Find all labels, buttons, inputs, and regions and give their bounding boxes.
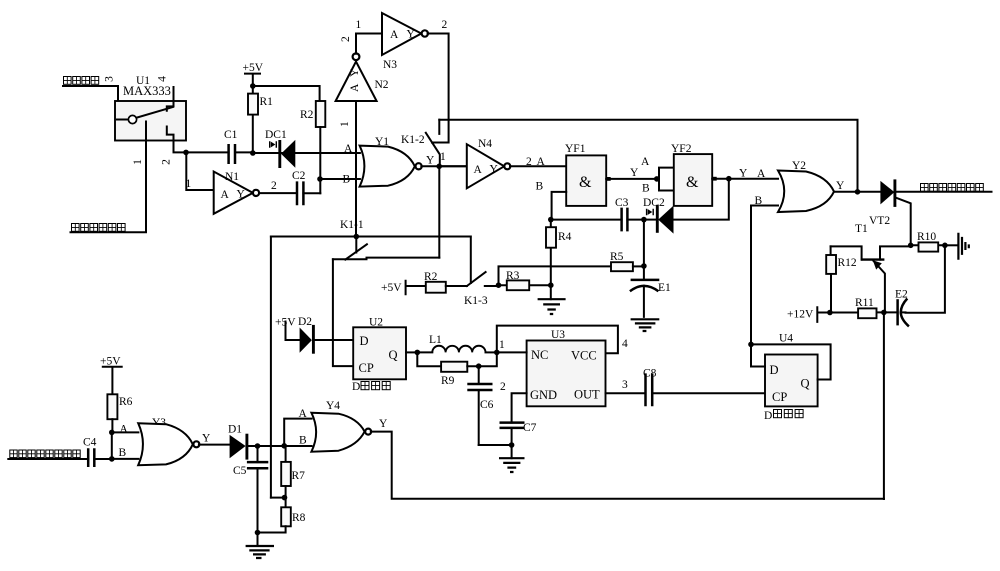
svg-text:+5V: +5V: [381, 282, 402, 294]
svg-text:C2: C2: [292, 170, 306, 182]
wire (Y2.B / U4.D): [751, 206, 765, 367]
diode DC2: [643, 197, 674, 234]
svg-text:D: D: [764, 410, 772, 422]
svg-text:1: 1: [499, 339, 505, 351]
wire (to Y4.B): [258, 435, 312, 447]
svg-text:A: A: [349, 83, 361, 92]
svg-text:&: &: [686, 174, 699, 191]
svg-text:B: B: [119, 447, 127, 459]
NOR gate Y3: [138, 417, 199, 465]
svg-text:R2: R2: [424, 271, 438, 283]
svg-text:1: 1: [339, 121, 351, 127]
svg-text:NC: NC: [531, 348, 548, 362]
svg-text:R2: R2: [300, 109, 314, 121]
node: [654, 176, 660, 182]
svg-text:A: A: [120, 424, 129, 436]
svg-text:R3: R3: [506, 270, 520, 282]
svg-text:E2: E2: [895, 289, 908, 301]
node: [509, 442, 515, 448]
svg-text:C6: C6: [480, 399, 494, 411]
wire (U3 pin1): [497, 351, 527, 353]
node: [496, 282, 502, 288]
svg-text:+12V: +12V: [787, 309, 814, 321]
node: [317, 176, 323, 182]
wire (Y4 out to bottom rail): [371, 418, 884, 499]
svg-text:+5V: +5V: [243, 62, 264, 74]
D flip-flop U4: [765, 333, 818, 407]
svg-text:A: A: [344, 143, 353, 155]
svg-text:4: 4: [622, 338, 628, 350]
svg-text:Y: Y: [426, 155, 435, 167]
wire: [111, 432, 113, 459]
pin 4: [157, 76, 174, 101]
wire (node A): [253, 143, 360, 155]
wire (N2 out to N3 in): [356, 19, 383, 54]
wire (top rail to Y2 out): [439, 120, 857, 192]
svg-text:R9: R9: [441, 375, 455, 387]
resistor R1: [248, 86, 273, 153]
wire (to N1 input): [186, 152, 215, 190]
node: [183, 150, 189, 156]
inverter N1: [214, 171, 259, 214]
wire (K1-1 right down to K1-3): [470, 237, 472, 284]
label (D flip-flop): [764, 410, 803, 423]
node: [476, 363, 482, 369]
svg-text:A: A: [757, 168, 766, 180]
svg-text:D: D: [770, 363, 779, 377]
svg-text:2: 2: [161, 159, 173, 165]
svg-text:N4: N4: [478, 138, 492, 150]
svg-text:C3: C3: [615, 197, 629, 209]
svg-text:A: A: [537, 156, 546, 168]
node: [881, 310, 887, 316]
wire (Y2 out): [834, 180, 858, 192]
svg-text:B: B: [536, 181, 544, 193]
svg-text:Y: Y: [379, 418, 388, 430]
transistor T1: [831, 198, 911, 313]
diode D1: [228, 424, 258, 460]
node: [255, 443, 261, 449]
svg-text:A: A: [299, 408, 308, 420]
capacitor E1: [630, 220, 671, 317]
pin 1 label: [132, 159, 144, 165]
svg-text:Y: Y: [739, 168, 748, 180]
wire (YF1.Y): [606, 167, 659, 181]
wire (K1-1 left down): [270, 237, 272, 498]
svg-text:&: &: [579, 174, 592, 191]
timer U3: [527, 329, 606, 406]
capacitor C4: [8, 437, 112, 468]
svg-text:Y: Y: [349, 68, 361, 77]
svg-text:R7: R7: [292, 470, 306, 482]
ground: [499, 445, 525, 472]
capacitor C7: [500, 422, 537, 445]
svg-text:K1-3: K1-3: [464, 295, 488, 307]
svg-text:2: 2: [340, 36, 352, 42]
wire (YF2 input bracket): [641, 156, 674, 195]
NOR gate Y4: [311, 400, 371, 452]
svg-text:A: A: [474, 164, 483, 176]
wire (Y1 out down to K1-1 contact): [438, 166, 440, 257]
resistor R11: [830, 297, 884, 318]
relay U1: [115, 101, 186, 141]
wire (Y3.B): [112, 447, 139, 459]
svg-text:1: 1: [440, 151, 446, 163]
+5V supply: [100, 356, 122, 395]
pin 2 label: [161, 159, 173, 165]
svg-text:C5: C5: [233, 465, 247, 477]
capacitor C8: [643, 368, 765, 407]
svg-text:C7: C7: [523, 422, 537, 434]
svg-text:Y: Y: [490, 164, 499, 176]
node: [548, 282, 554, 288]
capacitor C2: [292, 170, 320, 205]
svg-text:1: 1: [356, 19, 362, 31]
diode VT2: [858, 179, 895, 227]
node: [855, 189, 861, 195]
wire (Y2.B): [751, 195, 778, 207]
wire (U2.Q): [406, 351, 417, 353]
node: [354, 234, 360, 240]
svg-text:R11: R11: [855, 297, 874, 309]
resistor R3: [499, 270, 551, 290]
capacitor C3: [551, 197, 644, 231]
svg-text:D1: D1: [228, 424, 242, 436]
wire (R1 top to R2 top): [253, 86, 320, 101]
node: [250, 150, 256, 156]
svg-text:K1-1: K1-1: [340, 219, 364, 231]
svg-text:N2: N2: [375, 79, 389, 91]
wire (U3.OUT): [606, 379, 646, 393]
node: [641, 263, 647, 269]
wire (K1-1 to U2.CP): [333, 259, 353, 366]
wire (N1 out): [259, 180, 297, 193]
svg-text:R10: R10: [917, 231, 936, 243]
svg-text:R5: R5: [610, 251, 624, 263]
NOR gate Y1: [360, 136, 422, 187]
wire: [63, 86, 118, 101]
svg-text:K1-2: K1-2: [401, 134, 425, 146]
diode D2: [298, 316, 353, 354]
ground: [246, 533, 274, 559]
svg-text:CP: CP: [359, 361, 374, 375]
svg-text:Q: Q: [389, 348, 398, 362]
resistor R6: [107, 394, 132, 432]
svg-text:N3: N3: [383, 59, 397, 71]
wire (YF2.Y to Y2.A): [712, 168, 778, 181]
AND gate YF1: [565, 143, 606, 206]
svg-text:OUT: OUT: [574, 388, 600, 402]
wire (Y3.A): [112, 424, 139, 436]
capacitor E2: [884, 289, 909, 327]
diode DC1: [265, 129, 295, 168]
node: [109, 430, 115, 436]
wire (feedback to DC2): [674, 179, 729, 220]
svg-text:C1: C1: [224, 129, 238, 141]
relay U1 label: [123, 75, 171, 98]
capacitor C5: [233, 446, 268, 533]
resistor R9: [417, 352, 497, 387]
svg-text:B: B: [755, 195, 763, 207]
switch K1-2: [401, 120, 440, 167]
svg-text:CP: CP: [772, 390, 787, 404]
node: [942, 243, 948, 249]
input label (fault warning signal): [72, 224, 126, 232]
wire (U4.Q loop): [751, 344, 831, 379]
inverter N4: [439, 138, 510, 188]
svg-text:MAX333: MAX333: [123, 84, 171, 98]
svg-text:1: 1: [186, 178, 192, 190]
inverter N2: [336, 36, 389, 127]
svg-text:4: 4: [157, 76, 169, 82]
svg-text:R4: R4: [558, 231, 572, 243]
wire (VCC loop): [497, 326, 628, 354]
label (D flip-flop): [352, 381, 390, 393]
svg-text:Y4: Y4: [326, 400, 340, 412]
+12V supply: [787, 307, 830, 322]
svg-text:VT2: VT2: [869, 215, 890, 227]
capacitor C1: [186, 129, 253, 164]
wire: [271, 497, 285, 499]
input label (fault position pulse signal): [10, 450, 80, 458]
wire (node B): [320, 174, 360, 186]
svg-text:2: 2: [271, 180, 277, 192]
wire (N4 out): [510, 156, 566, 168]
capacitor C6: [467, 366, 493, 445]
svg-text:Q: Q: [801, 377, 810, 391]
resistor R7: [281, 446, 305, 498]
svg-text:VCC: VCC: [571, 349, 597, 363]
node: [109, 456, 115, 462]
svg-text:D: D: [352, 381, 360, 393]
node: [827, 310, 833, 316]
wire (output): [895, 191, 992, 193]
svg-text:C4: C4: [83, 437, 97, 449]
D flip-flop U2: [353, 317, 406, 380]
svg-text:U3: U3: [551, 329, 565, 341]
inverter N3: [382, 13, 428, 71]
svg-text:Y: Y: [202, 433, 211, 445]
wire (E2 node down to bottom rail): [883, 312, 885, 499]
+5V supply: [381, 281, 426, 295]
resistor R2: [424, 271, 467, 293]
node: [415, 350, 421, 356]
wire (R10 node to E2 wire): [906, 245, 945, 312]
pin 3: [104, 76, 116, 82]
svg-text:R12: R12: [838, 257, 857, 269]
svg-text:2: 2: [442, 19, 448, 31]
input label (fault edge pulse): [64, 77, 99, 85]
wire (pin1 down): [71, 141, 147, 233]
resistor R10: [911, 231, 945, 252]
node: [282, 495, 288, 501]
svg-text:DC1: DC1: [265, 129, 287, 141]
svg-text:Y: Y: [407, 29, 416, 41]
svg-text:3: 3: [622, 379, 628, 391]
node: [494, 350, 500, 356]
resistor R5: [610, 251, 644, 271]
AND gate YF2: [671, 143, 712, 206]
resistor R4: [546, 220, 572, 286]
svg-text:YF1: YF1: [565, 143, 586, 155]
wire (N3 out): [428, 19, 449, 143]
wire (R5 left leg): [499, 266, 612, 285]
resistor R12: [826, 246, 857, 312]
svg-text:N1: N1: [225, 171, 239, 183]
svg-text:3: 3: [104, 76, 116, 82]
svg-text:2: 2: [500, 381, 506, 393]
svg-text:DC2: DC2: [643, 197, 665, 209]
wire (to Y4.A): [284, 408, 311, 446]
node: [255, 530, 261, 536]
svg-text:U4: U4: [779, 333, 793, 345]
svg-text:A: A: [641, 156, 650, 168]
wire (U3 pin2/GND): [500, 381, 527, 423]
svg-text:R1: R1: [260, 96, 274, 108]
svg-text:A: A: [221, 189, 230, 201]
node: [908, 243, 914, 249]
svg-text:E1: E1: [658, 282, 671, 294]
inductor L1: [417, 334, 497, 352]
wire (N2 in, down to K1-1): [355, 101, 357, 237]
svg-text:R6: R6: [119, 396, 133, 408]
wire (YF1.B): [536, 181, 567, 220]
node: [436, 164, 442, 170]
node: [281, 443, 287, 449]
resistor R8: [258, 498, 306, 533]
ground (right): [945, 233, 969, 260]
wire (pin2): [174, 141, 187, 153]
ground: [631, 319, 660, 331]
+5V supply: [243, 62, 264, 86]
svg-text:L1: L1: [429, 334, 442, 346]
node: [726, 176, 732, 182]
svg-text:R8: R8: [292, 512, 306, 524]
svg-text:D: D: [360, 334, 369, 348]
svg-text:A: A: [390, 29, 399, 41]
node: [548, 217, 554, 223]
node: [641, 217, 647, 223]
node: [748, 342, 754, 348]
wire: [479, 444, 512, 446]
svg-text:2: 2: [526, 156, 532, 168]
svg-text:GND: GND: [530, 388, 557, 402]
svg-text:Y: Y: [630, 167, 639, 179]
output label (compensated edge pulse): [921, 184, 984, 192]
svg-text:B: B: [642, 183, 650, 195]
+5V supply: [275, 317, 300, 341]
ground: [538, 285, 566, 314]
svg-text:B: B: [299, 435, 307, 447]
wire (Y1 out): [421, 151, 467, 167]
svg-text:Y: Y: [836, 180, 845, 192]
node: [250, 83, 256, 89]
svg-text:T1: T1: [855, 223, 868, 235]
svg-text:Y: Y: [237, 189, 246, 201]
svg-text:D2: D2: [298, 316, 312, 328]
switch K1-1: [271, 219, 471, 260]
OR gate Y2: [778, 160, 834, 212]
resistor R2: [300, 101, 325, 193]
switch K1-3: [464, 272, 499, 307]
svg-text:B: B: [343, 174, 351, 186]
svg-text:1: 1: [132, 159, 144, 165]
wire (Y3 out): [199, 433, 230, 445]
